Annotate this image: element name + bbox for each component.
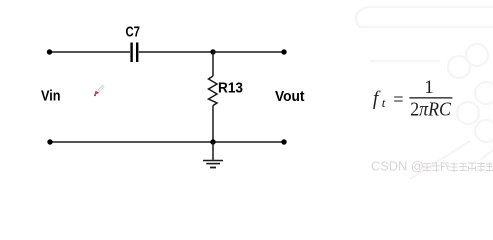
wire: top rail left (Vin terminal to C7) [50, 51, 131, 53]
node: bottom junction [210, 139, 215, 144]
node: top junction [210, 49, 215, 54]
watermark logo circles [356, 7, 493, 179]
ground [203, 142, 223, 168]
svg-text:Vin: Vin [41, 89, 61, 105]
node: Vin terminal dot [47, 49, 52, 54]
wire: C7 to junction node [139, 51, 213, 53]
svg-text:=: = [393, 90, 403, 111]
resistor R13 [209, 52, 218, 142]
node: Vout terminal dot [281, 49, 286, 54]
svg-text:t: t [382, 95, 386, 110]
svg-text:CSDN @: CSDN @ [371, 158, 424, 173]
wire: junction to Vout terminal [213, 51, 284, 53]
node: bottom-right terminal dot [281, 139, 286, 144]
svg-text:2πRC: 2πRC [410, 99, 451, 121]
wire: bottom rail [50, 141, 284, 143]
svg-text:Vout: Vout [275, 89, 305, 105]
node: bottom-left terminal dot [47, 139, 52, 144]
svg-text:C7: C7 [126, 25, 141, 41]
pen cursor icon [94, 86, 104, 97]
svg-text:f: f [373, 89, 381, 110]
capacitor C7 [132, 43, 138, 63]
svg-text:R13: R13 [218, 81, 243, 97]
watermark chinese glyph blocks [423, 162, 493, 172]
formula f_t = 1/(2piRC) [373, 77, 453, 121]
svg-text:1: 1 [424, 77, 434, 98]
